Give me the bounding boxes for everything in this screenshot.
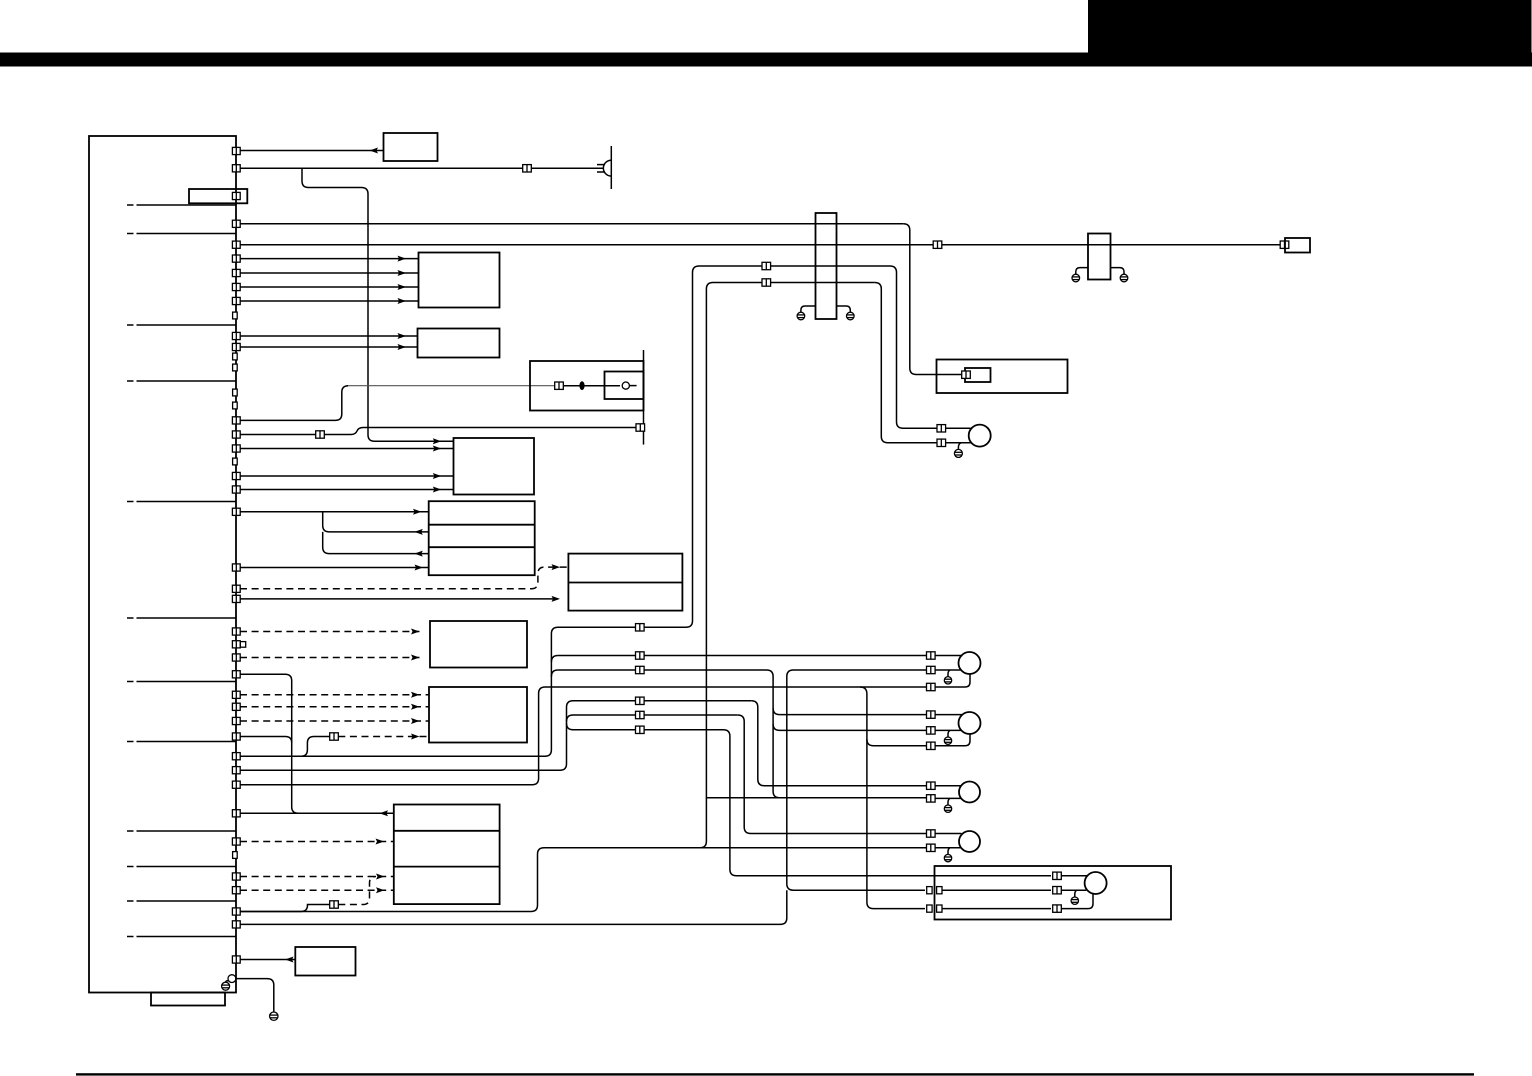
wire pin to box I y=448.5 bbox=[240, 448, 454, 450]
wire lamp4 top into lamp bbox=[935, 833, 961, 835]
ECU pin y=336 bbox=[232, 332, 240, 339]
dashed wire pin to box L row2 bbox=[240, 841, 394, 843]
box K divider bbox=[568, 582, 682, 584]
arrow into box J row3 bbox=[414, 551, 423, 557]
connector on motor bottom wire bbox=[937, 439, 946, 446]
box I bbox=[454, 438, 535, 495]
ground tap lamp2 bbox=[948, 730, 950, 737]
wire pin to box I y=476 bbox=[240, 475, 454, 477]
ground stub at ECU case bbox=[226, 981, 229, 983]
connector big box row3 bbox=[1053, 905, 1062, 912]
ECU bottom notch box bbox=[151, 993, 225, 1006]
dashed wire pin to box C y=657.5 bbox=[240, 657, 420, 659]
ground below motor bbox=[954, 449, 962, 457]
wire pin959 to box M bbox=[240, 959, 295, 961]
connector inside box H bbox=[555, 382, 564, 389]
wire drop x881 to motor bottom bbox=[875, 283, 937, 443]
connector on line y627 bbox=[636, 624, 645, 631]
terminal tab pin stub bbox=[240, 642, 245, 648]
box J (3-row box) bbox=[429, 501, 535, 575]
wire lamp3 bottom into lamp bbox=[935, 797, 961, 799]
ECU pin y=721 bbox=[232, 717, 240, 724]
box L divider 1 bbox=[394, 830, 500, 832]
wire pin to box J row1 bbox=[240, 511, 429, 513]
wire riser x692 up to cross line bbox=[686, 266, 890, 627]
ECU pin (empty) y=356.5 bbox=[233, 353, 238, 360]
wire row1 into lamp circle bbox=[1061, 875, 1087, 877]
wire big box row2 bbox=[942, 889, 1051, 891]
dashed wire pin to box D y=721 bbox=[240, 720, 429, 722]
box C bbox=[430, 621, 527, 668]
arrow into box J row2 bbox=[414, 529, 423, 535]
dashed wire pin to box K row1 bbox=[240, 567, 568, 589]
ECU pin y=301 bbox=[232, 297, 240, 304]
connector at far right box bbox=[1280, 241, 1289, 248]
wire pin924 jog joining riser x786 bbox=[240, 890, 787, 924]
splice dot in box H bbox=[579, 381, 584, 390]
box L divider 2 bbox=[394, 866, 500, 868]
ECU pin y=784.7 bbox=[232, 781, 240, 788]
box H (relay box) bbox=[530, 361, 644, 411]
case circle at ECU bottom bbox=[228, 975, 236, 983]
ECU pin y=434.5 bbox=[232, 431, 240, 438]
connector on big box edge row2 bbox=[937, 887, 942, 894]
wire lamp1 bottom jog up into lamp bbox=[935, 674, 970, 687]
ECU pin y=448.5 bbox=[232, 445, 240, 452]
ECU pin y=511.8 bbox=[232, 508, 240, 515]
ground right of rect1 bbox=[847, 312, 855, 320]
connector on line y700 bbox=[636, 697, 645, 704]
wire pin to box H feed bbox=[240, 386, 348, 421]
ECU pin (empty) y=855 bbox=[233, 852, 238, 859]
connector on horn wire bbox=[523, 165, 532, 172]
ECU internal stub wire y=205 bbox=[137, 204, 237, 206]
ECU pin y=258.6 bbox=[232, 255, 240, 262]
lamp circle lamp1 bbox=[959, 652, 981, 674]
ECU pin y=476 bbox=[232, 472, 240, 479]
ECU internal stub wire y=866.5 bbox=[137, 866, 237, 868]
wire pin to box G2 y=336 bbox=[240, 335, 418, 337]
dashed wire pin to box L row3 upper bbox=[240, 876, 394, 878]
fuse block rect2 (crossing long line) bbox=[1088, 234, 1111, 280]
ECU pin y=644.3 bbox=[232, 641, 240, 648]
arrow into box K row1 bbox=[552, 564, 561, 570]
connector on long power line bbox=[933, 241, 942, 248]
dashed wire pin to box L row3 lower bbox=[240, 889, 394, 891]
ECU pin y=631.5 bbox=[232, 628, 240, 635]
box P inner box bbox=[965, 368, 991, 382]
wire pin2 horn feed bbox=[240, 167, 603, 169]
wire lamp3 top into lamp bbox=[935, 785, 961, 787]
ground left of rect1 bbox=[797, 312, 805, 320]
wire lamp2 top line right part bbox=[780, 714, 928, 716]
box H inner box bbox=[605, 372, 644, 400]
box J divider 1 bbox=[429, 524, 535, 526]
connector on cross line y266 bbox=[762, 262, 771, 269]
ground stub left of rect2 bbox=[1076, 268, 1088, 275]
ground stub right of rect2 bbox=[1111, 268, 1125, 275]
ECU pin y=196 bbox=[232, 192, 240, 199]
wire pin to box G1 y=258.6 bbox=[240, 258, 419, 260]
wire pin to box G1 y=287 bbox=[240, 286, 419, 288]
ground in big box bbox=[1071, 897, 1078, 904]
black title block (top right) bbox=[1088, 0, 1532, 67]
wire from coil circle bbox=[629, 385, 636, 387]
box G1 bbox=[419, 253, 500, 308]
connector lamp2 top bbox=[927, 711, 936, 718]
ECU pin y=911.5 bbox=[232, 908, 240, 915]
wire row3 jog up into lamp circle bbox=[1061, 894, 1093, 909]
wire pin to box J row3 lower bbox=[240, 567, 429, 569]
ECU pin y=813.3 bbox=[232, 810, 240, 817]
wire pin to box I y=489.5 bbox=[240, 489, 454, 491]
ECU pin y=959.5 bbox=[232, 956, 240, 963]
wire pin through connector to long line bbox=[240, 428, 636, 435]
dashed wire pin to box D y=706.8 bbox=[240, 706, 429, 708]
ECU pin y=841.5 bbox=[232, 838, 240, 845]
wire corner down to box P bbox=[903, 224, 962, 375]
wire lamp1 top line bbox=[558, 655, 928, 657]
wire row2 into lamp circle bbox=[1061, 889, 1086, 891]
ECU pin y=890.2 bbox=[232, 887, 240, 894]
wire jog up from pin756 line to connector bbox=[301, 737, 330, 757]
ECU pin y=924.4 bbox=[232, 921, 240, 928]
connector on jog wire bbox=[330, 901, 339, 908]
connector lamp1 mid bbox=[927, 666, 936, 673]
fuse block rect1 (tall crossing rect) bbox=[816, 213, 837, 319]
ECU pin (empty) y=405.5 bbox=[233, 402, 238, 409]
ECU pin y=598.9 bbox=[232, 595, 240, 602]
wire branch x867 down from lamp1 bottom line bbox=[860, 687, 925, 909]
wire lamp2 top into lamp bbox=[935, 714, 962, 716]
connector outside big box row3 bbox=[927, 905, 932, 912]
ground lamp4 bbox=[944, 854, 951, 861]
connector big box row2 bbox=[1053, 887, 1062, 894]
ECU pin y=489.5 bbox=[232, 486, 240, 493]
wire lamp3 bottom line bbox=[706, 797, 927, 799]
wire motor bottom into circle bbox=[946, 442, 972, 444]
ground tap big box bbox=[1075, 890, 1077, 897]
connector lamp4 top bbox=[927, 830, 936, 837]
ECU control-unit outline bbox=[89, 136, 236, 993]
dashed jog wire up to box L row3 bbox=[338, 877, 376, 905]
wire pin to box G1 y=273 bbox=[240, 272, 419, 274]
ECU pin (empty) y=315.5 bbox=[233, 312, 238, 319]
ECU pin y=347 bbox=[232, 343, 240, 350]
wire branch x551 to lamp1 top line bbox=[551, 656, 558, 663]
wire pin784 riser x538 to lamp feed line bbox=[240, 687, 927, 785]
bottom rule bbox=[76, 1073, 1474, 1075]
connector lamp2 mid bbox=[927, 727, 936, 734]
ECU pin y=223.8 bbox=[232, 220, 240, 227]
wire branch x706 up to cross line y282 bbox=[700, 283, 875, 848]
connector big box row1 bbox=[1053, 872, 1062, 879]
connector on lamp1 mid line bbox=[636, 666, 645, 673]
ECU pin y=736.5 bbox=[232, 733, 240, 740]
box K (2-row box) bbox=[568, 554, 682, 611]
ECU pin y=420.4 bbox=[232, 417, 240, 424]
ground lamp1 bbox=[944, 677, 951, 684]
dashed wire pin to box D y=694.8 bbox=[240, 694, 429, 696]
ECU internal stub wire y=936.5 bbox=[137, 936, 237, 938]
arrow into box I row1 bbox=[433, 438, 442, 444]
connector lamp3 top bbox=[927, 782, 936, 789]
wire big box row1 to connector bbox=[935, 875, 1052, 877]
wire lamp1 mid into lamp bbox=[935, 669, 961, 671]
connector lamp1 top bbox=[927, 652, 936, 659]
wire lamp4 bottom into lamp bbox=[935, 847, 961, 849]
wire motor top into circle bbox=[946, 427, 971, 429]
ground tap lamp3 bbox=[948, 798, 950, 805]
ECU internal stub wire y=741.5 bbox=[137, 741, 237, 743]
wire pin to box K row2 bbox=[240, 598, 558, 600]
connector on motor top wire bbox=[937, 425, 946, 432]
ground stub left of rect1 bbox=[801, 306, 816, 312]
lamp circle in big box bbox=[1085, 872, 1107, 894]
wire branch to box J row2 bbox=[323, 512, 429, 532]
ECU internal stub wire y=618 bbox=[137, 617, 237, 619]
box L (3-row box) bbox=[394, 805, 500, 905]
ECU pin (empty) y=461.5 bbox=[233, 458, 238, 465]
ECU internal stub wire y=901 bbox=[137, 900, 237, 902]
wire big box row3 bbox=[942, 908, 1051, 910]
wire pin4 to tail-light box (long top line) bbox=[240, 223, 903, 225]
connector on pin wire bbox=[316, 431, 325, 438]
wire pin911 long line to riser x537 up to lamp4 bottom line bbox=[240, 848, 927, 912]
box G2 bbox=[418, 329, 500, 358]
coil circle in box H bbox=[622, 382, 629, 389]
ground stub right of rect1 bbox=[837, 306, 851, 312]
ECU internal stub wire y=681.5 bbox=[137, 681, 237, 683]
ground lamp2 bbox=[944, 737, 951, 744]
wire pin1 to box F1 bbox=[240, 150, 384, 152]
wire branch x773 to lamp2 mid bbox=[773, 724, 927, 731]
wire pin to box L row1 bbox=[240, 812, 394, 814]
wire pin769 riser x566 bbox=[240, 701, 751, 770]
ECU pin y=273 bbox=[232, 269, 240, 276]
wire pin756 riser x551 bbox=[240, 627, 686, 756]
ECU pin y=588.8 bbox=[232, 585, 240, 592]
ECU pin y=567.5 bbox=[232, 564, 240, 571]
box M (bottom small box) bbox=[295, 947, 355, 976]
ECU pin y=770.2 bbox=[232, 767, 240, 774]
big box (bottom right unit) bbox=[935, 866, 1172, 920]
wire branch x867 to lamp2 bottom bbox=[867, 739, 928, 746]
ground lamp3 bbox=[944, 805, 951, 812]
ECU pin y=674.3 bbox=[232, 671, 240, 678]
ECU pin y=694.8 bbox=[232, 691, 240, 698]
wire pin911 jog up to connector bbox=[240, 905, 330, 912]
lamp circle lamp2 bbox=[959, 712, 981, 734]
wire branch x566 to lamp2 top line bbox=[567, 715, 574, 722]
wire lamp1 top into lamp bbox=[935, 655, 962, 657]
horn symbol bbox=[597, 146, 611, 189]
connector on lamp1 top line bbox=[636, 652, 645, 659]
box F1 (top small box) bbox=[384, 133, 438, 161]
connector lamp3 bottom bbox=[927, 795, 936, 802]
connector at box P inner box bbox=[962, 371, 971, 378]
connector lamp4 bottom bbox=[927, 844, 936, 851]
wire corner x744 down to lamp4 top bbox=[738, 715, 928, 834]
wire branch x551 to lamp1 mid line bbox=[551, 670, 558, 677]
ECU pin y=706.8 bbox=[232, 703, 240, 710]
connector on line y729.8 bbox=[636, 726, 645, 733]
ECU pin (empty) y=392.5 bbox=[233, 389, 238, 396]
wire drop x896 to motor top bbox=[890, 266, 971, 428]
wire branch to box J row3 bbox=[323, 532, 429, 554]
far right terminal box bbox=[1285, 238, 1310, 253]
vertical stub line right of box H bbox=[643, 350, 645, 445]
ECU pin y=657.5 bbox=[232, 654, 240, 661]
box D bbox=[429, 687, 527, 743]
arrow into ECU from box F1 bbox=[370, 148, 379, 154]
ECU internal stub wire y=233.5 bbox=[137, 233, 237, 235]
connector on box D feed wire bbox=[330, 733, 339, 740]
ground tap lamp4 bbox=[948, 848, 950, 855]
wire branch from pin2 down to long vertical into box I bbox=[302, 168, 454, 441]
ground left of rect2 bbox=[1072, 274, 1080, 282]
ECU pin y=151 bbox=[232, 147, 240, 154]
arrow into ECU from box M bbox=[285, 957, 294, 963]
ECU internal stub wire y=501.5 bbox=[137, 501, 237, 503]
wire pin736 corner down joining rail x291 bbox=[240, 737, 292, 744]
wire riser x786 down to big box row2 bbox=[787, 677, 925, 891]
connector lamp2 bottom bbox=[927, 742, 936, 749]
ground at ECU case bbox=[222, 982, 230, 990]
wire lamp1 mid line left part and rail x773 down to lamp3 bottom bbox=[558, 670, 780, 798]
wire branch x773 to lamp2 top bbox=[773, 708, 780, 715]
wire branch x566 line y729.8 down to big box row1 bbox=[567, 723, 1052, 876]
ground below ECU bbox=[270, 1012, 278, 1020]
wire lamp2 mid into lamp bbox=[935, 729, 961, 731]
connector on big box edge row3 bbox=[937, 905, 942, 912]
connector lamp1 bottom bbox=[927, 683, 936, 690]
ECU connector label box bbox=[189, 189, 247, 203]
connector outside big box row2 bbox=[927, 887, 932, 894]
box P (right component box) bbox=[937, 360, 1068, 394]
wire conn to splice dot bbox=[563, 385, 620, 387]
box J divider 2 bbox=[429, 546, 535, 548]
wire pin5 long power line bbox=[240, 244, 1280, 246]
arrow into ECU from box L row1 bbox=[380, 810, 389, 816]
ECU internal stub wire y=381 bbox=[137, 380, 237, 382]
ground right of rect2 bbox=[1120, 274, 1128, 282]
connector on cross line y282 bbox=[762, 279, 771, 286]
ECU internal stub wire y=831 bbox=[137, 830, 237, 832]
ground tap on motor bottom wire bbox=[958, 443, 961, 450]
ECU pin y=756.2 bbox=[232, 753, 240, 760]
ECU pin y=876.5 bbox=[232, 873, 240, 880]
ECU pin y=244.7 bbox=[232, 241, 240, 248]
ECU pin (empty) y=367.5 bbox=[233, 364, 238, 371]
wire lamp2 bottom jog up into lamp bbox=[935, 734, 970, 746]
ECU internal stub wire y=325 bbox=[137, 324, 237, 326]
ECU pin y=287 bbox=[232, 283, 240, 290]
wire lamp1 mid line right part from riser x786 bbox=[787, 670, 928, 677]
connector at vertical stub bbox=[636, 424, 645, 431]
lamp circle lamp4 bbox=[959, 831, 980, 852]
ECU pin y=168.3 bbox=[232, 165, 240, 172]
wire pin to box G2 y=347 bbox=[240, 346, 418, 348]
wire lamp2 top line left part bbox=[573, 714, 738, 716]
ground tap lamp1 bbox=[948, 670, 950, 677]
wire drop x757 to lamp3 top bbox=[751, 701, 927, 786]
dashed wire pin to box C y=631.5 bbox=[240, 631, 420, 633]
lamp circle lamp3 bbox=[959, 782, 980, 803]
motor circle bbox=[969, 425, 991, 447]
dashed wire connector to box D row3 bbox=[338, 736, 429, 738]
wire pin to box G1 y=301 bbox=[240, 300, 419, 302]
black header bar bbox=[0, 53, 1532, 67]
connector on lamp2 top line bbox=[636, 711, 645, 718]
wire case circle to ground drop bbox=[236, 979, 274, 1012]
wire pin671 down to box L row1 wire bbox=[240, 674, 298, 813]
